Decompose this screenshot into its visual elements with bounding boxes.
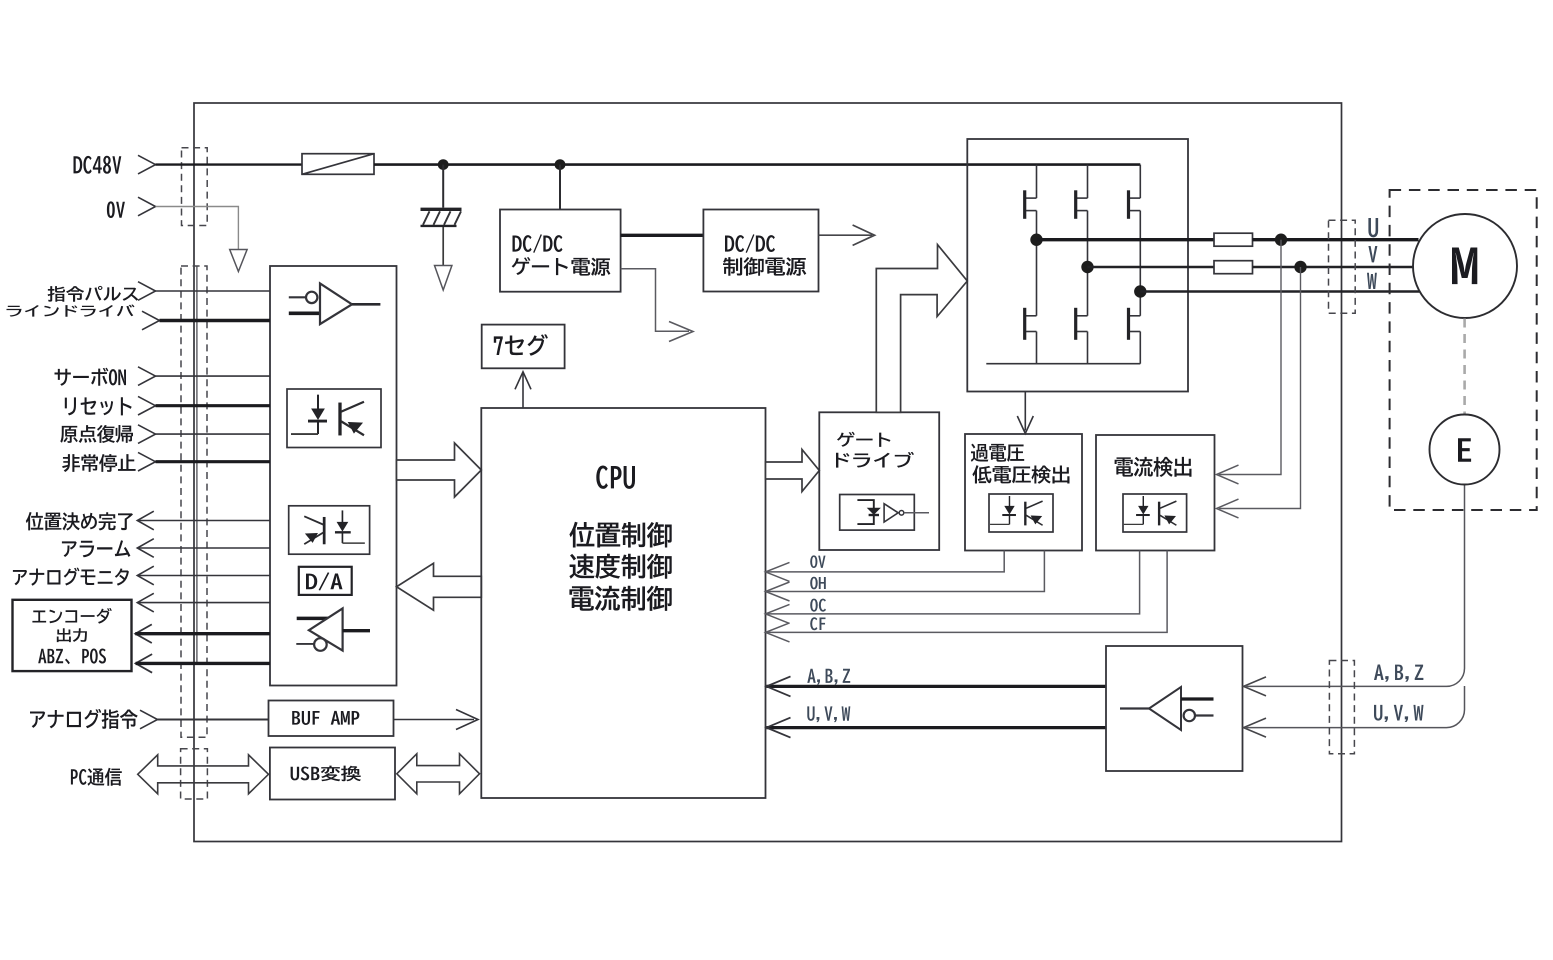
label output [57, 628, 87, 642]
wire W phase to motor [1140, 290, 1420, 293]
chassis ground symbol [421, 209, 462, 226]
label drive [836, 452, 914, 468]
label homing [60, 425, 133, 443]
label BUF AMP [292, 711, 359, 725]
block current detect [1096, 435, 1215, 551]
bent block arrow gate drive to inverter [876, 245, 967, 413]
arrow ABZ into receiver [1244, 677, 1267, 696]
input arrow 0V [138, 197, 156, 216]
optocoupler (voltage detect) [989, 494, 1053, 532]
fuse F1 [302, 154, 374, 175]
label OC [810, 599, 826, 612]
wire alarm [137, 547, 270, 549]
optocoupler (status outputs) [289, 506, 370, 554]
wire ABZ from encoder [1245, 485, 1465, 687]
label DC/DC (gate supply) [513, 234, 563, 253]
label PC communication [71, 768, 122, 786]
input arrow analog command [140, 710, 158, 729]
wire analog command [158, 719, 269, 721]
node V phase [1081, 261, 1093, 273]
block CPU [481, 408, 765, 798]
label CPU [596, 465, 635, 488]
wire line driver input [160, 319, 271, 322]
wire V phase to sense resistor [1088, 266, 1215, 269]
label servo ON [55, 368, 126, 386]
connector CN2 (signal, dashed) [181, 266, 207, 737]
block gate drive [819, 412, 939, 550]
wire V phase leg [1087, 211, 1089, 316]
label gate supply [512, 257, 611, 276]
label OV [810, 555, 825, 568]
input arrow command pulse [138, 282, 156, 301]
ground arrow (hollow) [435, 266, 452, 291]
label speed control [569, 554, 671, 579]
block DC/DC control supply U3 [703, 210, 818, 292]
wire to DC/DC gate supply [559, 165, 561, 210]
label control supply [723, 257, 806, 276]
wire positioning done [137, 520, 270, 522]
block encoder receiver [1106, 646, 1243, 771]
wire servo ON [156, 375, 271, 377]
arrow inverter to OV detect [1024, 392, 1026, 431]
label 0V [107, 201, 125, 218]
wire control supply output [819, 234, 873, 236]
wire DC48V to fuse [156, 163, 303, 165]
block arrow CPU to interface [397, 563, 482, 610]
output arrow encoder b [135, 624, 152, 643]
label reset [65, 397, 132, 415]
block USB converter [270, 748, 395, 800]
connector CN4 (motor, dashed) [1329, 220, 1356, 313]
output arrow alarm [137, 539, 154, 558]
optocoupler (control inputs) [287, 389, 381, 448]
optocoupler (gate drive) [840, 495, 915, 531]
block input interface [270, 266, 397, 686]
output arrow positioning done [137, 511, 154, 530]
wire BUF AMP to CPU [394, 719, 475, 721]
label command pulse [48, 286, 139, 302]
arrow CF to CPU [766, 623, 790, 642]
transistor Q5 (W high) [1129, 165, 1141, 219]
wire CPU to 7seg [522, 374, 524, 409]
arrow gate supply aux [669, 322, 693, 342]
connector CN5 (encoder, dashed) [1329, 661, 1354, 754]
label overvoltage [971, 444, 1024, 462]
wire U sense line [1219, 240, 1281, 475]
resistor RS2 (V sense) [1214, 261, 1253, 274]
wire 0V [156, 207, 239, 250]
resistor RS1 (U sense) [1214, 233, 1253, 246]
line receiver U6 (encoder feedback) [1120, 687, 1214, 730]
label CF [810, 617, 825, 630]
wire encoder out c [136, 662, 270, 665]
label emergency stop [62, 454, 135, 472]
wire U phase to motor [1253, 238, 1419, 241]
wire reset [156, 404, 271, 407]
block arrow interface to CPU [397, 443, 482, 497]
label ABZ POS [38, 648, 106, 664]
output arrow encoder a [137, 593, 154, 612]
wire emergency stop [156, 460, 271, 463]
label gate [837, 432, 891, 447]
block D/A converter [299, 567, 352, 595]
wire U phase to sense resistor [1037, 238, 1215, 241]
arrow to 7seg [515, 372, 531, 390]
label USB converter [291, 766, 361, 782]
block arrow CPU to gate drive [766, 450, 820, 492]
wire to chassis ground [442, 165, 444, 208]
label ABZ feedback [807, 669, 850, 685]
label UVW (encoder side) [1374, 705, 1424, 722]
arrow OC to CPU [766, 604, 790, 623]
node at fuse output [438, 159, 449, 170]
wire UVW from encoder [1245, 686, 1465, 728]
input arrow emergency stop [138, 452, 156, 471]
wire homing [156, 433, 271, 435]
arrow control supply output [853, 225, 875, 245]
label analog command [30, 709, 138, 729]
line receiver U4 (pulse input) [289, 283, 381, 324]
wire OH signal [766, 551, 1045, 592]
wire V phase to motor [1253, 266, 1415, 269]
wire OV signal [766, 551, 1005, 572]
main board outline [194, 103, 1342, 842]
connector bus line (left, inner) [196, 267, 198, 664]
wire CF signal [766, 551, 1168, 633]
block DC/DC gate supply U2 [500, 210, 621, 292]
transistor Q1 (U high) [1025, 165, 1037, 219]
wire V sense line [1219, 267, 1301, 509]
wire command pulse [156, 290, 271, 292]
label DC/DC (control supply) [725, 234, 775, 253]
label alarm [62, 540, 130, 557]
label position control [569, 522, 671, 548]
block over/under-voltage detect [965, 434, 1082, 551]
label analog monitor [13, 568, 129, 586]
wire analog monitor [137, 575, 270, 577]
double arrow PC link (hollow) [138, 755, 269, 794]
wire encoder out b [135, 632, 270, 635]
input arrow servo ON [138, 367, 156, 386]
double arrow USB to CPU (hollow) [397, 754, 480, 794]
arrow OV to CPU [766, 562, 790, 581]
transistor Q3 (V high) [1076, 165, 1088, 219]
label line driver [6, 305, 134, 317]
label V [1368, 246, 1377, 262]
output arrow encoder c [136, 654, 153, 673]
label OH [810, 577, 826, 590]
label undervoltage detect [972, 465, 1069, 483]
arrow V sense into current detect [1217, 499, 1239, 518]
wire gate supply aux output [621, 269, 689, 332]
label UVW feedback [807, 706, 850, 722]
wire encoder out a [137, 602, 270, 604]
input arrow reset [138, 396, 156, 415]
output arrow analog monitor [137, 566, 154, 585]
input arrow line driver input [142, 311, 160, 330]
wire ABZ feedback [767, 685, 1107, 688]
wire inverter bottom bus [986, 363, 1140, 365]
input arrow DC48V [138, 155, 156, 174]
wire UVW feedback [767, 726, 1107, 729]
node V sense tap [1294, 261, 1306, 273]
transistor Q4 (V low) [1076, 308, 1088, 364]
transistor Q6 (W low) [1129, 308, 1141, 364]
label encoder [32, 608, 111, 624]
arrow ABZ to CPU [767, 676, 791, 696]
block inverter bridge [967, 139, 1188, 392]
wire OC signal [766, 551, 1140, 614]
0V return arrow (hollow) [230, 250, 247, 272]
block encoder output ABZ POS [13, 600, 132, 671]
encoder E [1430, 415, 1500, 485]
arrow OH to CPU [766, 582, 790, 601]
shaft link M to E (gray dashed) [1463, 319, 1466, 415]
block 7-segment display [482, 325, 565, 369]
wire ground stem [442, 227, 444, 266]
arrow UVW to CPU [767, 718, 791, 738]
node at DC/DC tap [555, 159, 566, 170]
label W [1367, 273, 1377, 289]
arrow UVW into receiver [1244, 718, 1267, 737]
label U [1368, 218, 1378, 237]
motor unit (dashed) [1390, 190, 1537, 510]
connector CN1 (power, dashed) [182, 148, 208, 226]
label current control [569, 586, 671, 611]
arrow U sense into current detect [1217, 465, 1239, 484]
label current detect [1115, 457, 1192, 477]
wire U phase leg [1036, 211, 1038, 316]
transistor Q2 (U low) [1025, 308, 1037, 364]
node W phase [1134, 285, 1146, 297]
label ABZ (encoder side) [1374, 665, 1423, 682]
arrow BUF AMP to CPU [456, 710, 478, 730]
wire DC/DC gate to control supply [621, 234, 704, 237]
label D/A [306, 572, 343, 590]
motor M [1413, 214, 1517, 318]
block BUF AMP [269, 701, 394, 737]
node U phase [1030, 234, 1042, 246]
wire W phase leg [1139, 211, 1141, 316]
label 7seg [494, 334, 548, 356]
label DC48V [73, 156, 121, 174]
optocoupler (current detect) [1123, 494, 1187, 532]
wire DC48V bus (fuse to inverter) [374, 163, 1140, 166]
input arrow homing [138, 425, 156, 444]
connector CN3 (PC, dashed) [181, 749, 208, 799]
line driver U5 (encoder output) [296, 608, 370, 650]
node U sense tap [1275, 234, 1287, 246]
label positioning done [26, 512, 133, 530]
